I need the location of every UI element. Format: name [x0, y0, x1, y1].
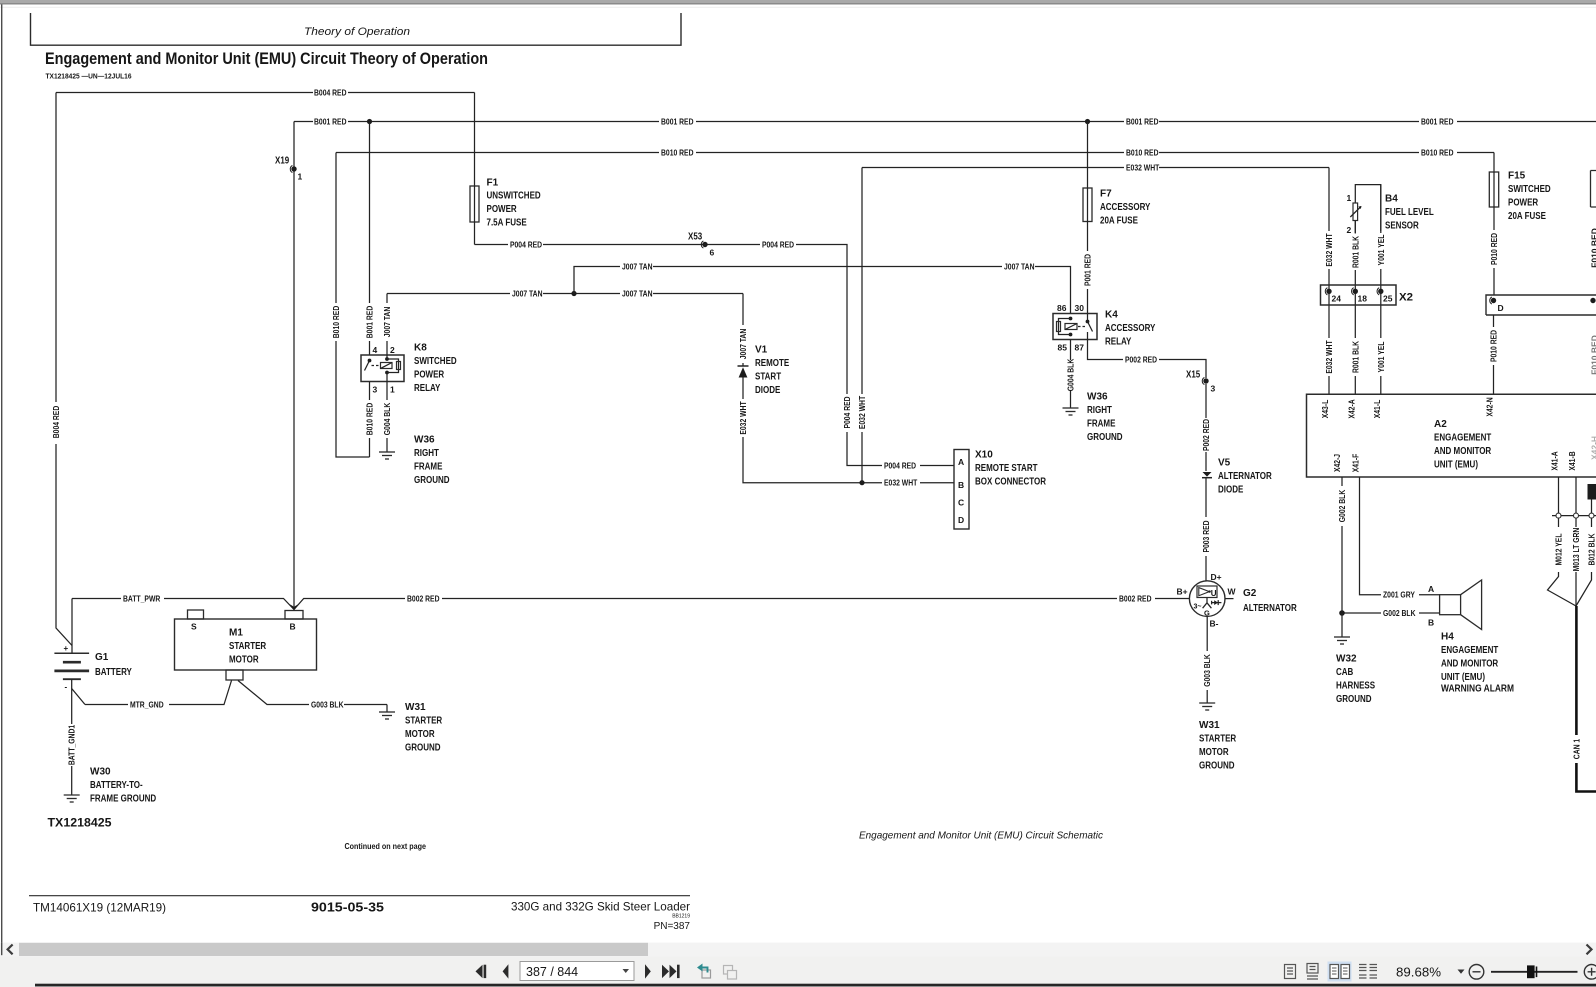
svg-text:UNIT (EMU): UNIT (EMU): [1434, 459, 1478, 470]
svg-text:1: 1: [298, 172, 303, 182]
junction on B001 RED at x369: [367, 119, 372, 124]
B4 pin numbers 1 2: [1347, 193, 1352, 235]
svg-text:25: 25: [1383, 294, 1393, 304]
wire B010 RED vertical drop x336: [331, 153, 370, 458]
svg-text:87: 87: [1075, 343, 1085, 353]
wire E032 WHT horizontal: [862, 162, 1329, 172]
svg-text:M012 YEL: M012 YEL: [1554, 534, 1564, 566]
svg-text:G004 BLK: G004 BLK: [1066, 358, 1076, 391]
EMU A2 box: [1307, 394, 1596, 477]
svg-text:P004 RED: P004 RED: [762, 239, 794, 249]
node X19 vertical wire B001 to starter: [293, 122, 295, 607]
svg-text:A: A: [1428, 584, 1434, 594]
svg-text:DIODE: DIODE: [755, 385, 781, 396]
wire P004 RED from F1 to X53 to drop: [475, 239, 955, 470]
svg-text:BATTERY-TO-: BATTERY-TO-: [90, 780, 143, 791]
svg-text:BOX CONNECTOR: BOX CONNECTOR: [975, 477, 1047, 488]
wire G004 BLK from K4 pin85 to ground: [1066, 340, 1076, 409]
svg-text:RELAY: RELAY: [1105, 337, 1132, 348]
svg-text:RIGHT: RIGHT: [414, 448, 439, 459]
toolbar previous page button: [503, 964, 509, 978]
svg-text:B002 RED: B002 RED: [407, 593, 440, 603]
svg-text:X42-J: X42-J: [1332, 454, 1342, 472]
svg-text:P004 RED: P004 RED: [510, 239, 542, 249]
label W32 CAB HARNESS GROUND: [1336, 654, 1375, 705]
svg-text:W32: W32: [1336, 654, 1357, 665]
svg-text:X53: X53: [688, 232, 703, 243]
svg-text:E032 WHT: E032 WHT: [738, 401, 748, 435]
svg-text:W31: W31: [1199, 720, 1220, 731]
svg-text:ACCESSORY: ACCESSORY: [1105, 323, 1156, 334]
K8 pin numbers 4 2 3 1: [373, 345, 396, 395]
svg-text:3: 3: [373, 385, 378, 395]
svg-text:J007 TAN: J007 TAN: [622, 288, 653, 298]
svg-text:POWER: POWER: [1508, 198, 1539, 209]
svg-text:GROUND: GROUND: [414, 475, 450, 486]
wire M012 YEL from EMU X41-A: [1548, 477, 1577, 606]
ground W31 below alternator: [1199, 703, 1215, 710]
svg-text:GROUND: GROUND: [1336, 694, 1372, 705]
wire P010 RED from D box to EMU X42-N: [1489, 315, 1499, 394]
ground W30 battery to frame: [64, 795, 80, 802]
alternator terminal labels D+ W B+ B-: [1177, 572, 1237, 629]
pdf viewer top edge strip: [0, 0, 1596, 8]
header box Theory of Operation: [31, 13, 682, 45]
wire B004 RED left vertical to battery: [51, 93, 72, 646]
connector X19 pin 1: [275, 156, 303, 182]
svg-text:X42-N: X42-N: [1485, 397, 1495, 416]
svg-text:G003 BLK: G003 BLK: [311, 699, 344, 709]
svg-text:J007 TAN: J007 TAN: [512, 288, 543, 298]
wire B012 BLK from edge box: [1576, 500, 1596, 607]
svg-text:F1: F1: [487, 177, 499, 188]
svg-text:J007 TAN: J007 TAN: [382, 307, 392, 338]
wire G003 BLK alternator B- to ground: [1202, 622, 1212, 703]
relay K8: [361, 355, 404, 382]
wire R001 BLK into X2 pin 18: [1350, 221, 1360, 395]
svg-text:X15: X15: [1186, 370, 1201, 381]
svg-text:J007 TAN: J007 TAN: [738, 329, 748, 360]
svg-text:D: D: [1498, 303, 1504, 313]
wire to W32 ground: [1341, 613, 1343, 637]
svg-text:Theory of Operation: Theory of Operation: [304, 26, 410, 38]
toolbar last page button: [662, 965, 680, 978]
svg-text:WARNING ALARM: WARNING ALARM: [1441, 684, 1514, 695]
svg-text:P002 RED: P002 RED: [1201, 419, 1211, 451]
wire P003 RED from V5 to alternator D+: [1201, 478, 1211, 581]
svg-text:START: START: [755, 372, 781, 383]
svg-text:E032 WHT: E032 WHT: [1126, 162, 1160, 172]
svg-text:H4: H4: [1441, 632, 1454, 643]
battery G1: [54, 644, 89, 705]
svg-text:387 / 844: 387 / 844: [526, 965, 578, 979]
svg-text:4: 4: [373, 345, 378, 355]
svg-text:DIODE: DIODE: [1218, 485, 1244, 496]
svg-text:X41-F: X41-F: [1351, 454, 1361, 473]
svg-text:2: 2: [390, 345, 395, 355]
K4 pin numbers 86 30 85 87: [1057, 303, 1084, 353]
svg-text:E032 WHT: E032 WHT: [857, 395, 867, 429]
connector box with pin D: [1486, 295, 1596, 315]
junction G002 BLK at W32: [1339, 610, 1345, 616]
svg-text:UNIT (EMU): UNIT (EMU): [1441, 672, 1485, 683]
svg-text:Continued on next page: Continued on next page: [345, 841, 427, 851]
svg-text:STARTER: STARTER: [1199, 734, 1237, 745]
svg-text:GROUND: GROUND: [405, 742, 441, 753]
fuse F7 and wire P001 RED: [1083, 122, 1093, 314]
CAN 1 bus thick wire: [1571, 606, 1596, 792]
component box at right edge: [1588, 484, 1596, 500]
svg-text:POWER: POWER: [487, 204, 518, 215]
svg-text:G2: G2: [1243, 588, 1257, 599]
svg-text:P002 RED: P002 RED: [1125, 354, 1157, 364]
junction on B001 RED at x1087: [1085, 119, 1090, 124]
svg-text:86: 86: [1057, 303, 1067, 313]
svg-text:G003 BLK: G003 BLK: [1202, 654, 1212, 687]
toolbar previous view icon: [697, 964, 711, 979]
wire BATT_PWR battery to starter B: [72, 593, 294, 653]
toolbar zoom out button: [1469, 965, 1484, 980]
wire G003 BLK motor to ground: [238, 681, 387, 713]
svg-text:Y001 YEL: Y001 YEL: [1376, 342, 1386, 373]
svg-text:X41-L: X41-L: [1372, 400, 1382, 419]
label F1 UNSWITCHED POWER 7.5A FUSE: [487, 177, 541, 228]
toolbar continuous icon: [1307, 964, 1318, 980]
svg-text:18: 18: [1358, 294, 1368, 304]
wire P002 RED from K4 pin87: [1088, 340, 1212, 472]
svg-text:RIGHT: RIGHT: [1087, 405, 1112, 416]
partial fuse at right page edge: [1591, 171, 1596, 208]
wire B010 RED riser to K8 pin 3: [365, 382, 375, 457]
svg-text:MOTOR: MOTOR: [405, 729, 435, 740]
svg-text:F010 BED: F010 BED: [1590, 335, 1596, 375]
svg-text:X42-H: X42-H: [1590, 436, 1596, 460]
toolbar next view icon disabled: [724, 966, 737, 980]
svg-text:TM14061X19 (12MAR19): TM14061X19 (12MAR19): [33, 901, 166, 915]
svg-text:W31: W31: [405, 702, 426, 713]
fuse F15 and wire P010 RED: [1489, 153, 1499, 296]
X2 pin numbers 24 18 25: [1332, 294, 1393, 304]
junction J007 TAN at x574: [571, 291, 576, 296]
svg-text:24: 24: [1332, 294, 1342, 304]
svg-text:B010 RED: B010 RED: [331, 306, 341, 339]
svg-text:9015-05-35: 9015-05-35: [311, 900, 384, 915]
label G1 BATTERY: [95, 652, 132, 678]
svg-text:REMOTE: REMOTE: [755, 358, 789, 369]
svg-text:B4: B4: [1385, 194, 1398, 205]
svg-text:B001 RED: B001 RED: [1421, 116, 1454, 126]
toolbar page number box 387 / 844: [520, 962, 634, 981]
wire J007 TAN drop to K8 pin 2: [382, 294, 392, 356]
svg-text:W30: W30: [90, 767, 111, 778]
svg-text:85: 85: [1058, 343, 1068, 353]
svg-text:G004 BLK: G004 BLK: [382, 402, 392, 435]
alternator G2: [1189, 581, 1233, 622]
svg-text:P001 RED: P001 RED: [1083, 254, 1093, 286]
diode V5 alternator diode: [1202, 472, 1212, 478]
svg-text:B004 RED: B004 RED: [51, 406, 61, 439]
svg-text:G002 BLK: G002 BLK: [1383, 608, 1416, 618]
svg-text:V5: V5: [1218, 458, 1231, 469]
H4 terminal labels A B: [1428, 584, 1434, 628]
wire M013 LT GRN from EMU X41-B: [1571, 477, 1581, 606]
svg-text:RELAY: RELAY: [414, 383, 441, 394]
svg-text:FRAME GROUND: FRAME GROUND: [90, 794, 156, 805]
svg-text:A: A: [958, 457, 964, 467]
alarm H4 speaker: [1440, 580, 1482, 630]
svg-text:CAB: CAB: [1336, 667, 1353, 678]
svg-text:ENGAGEMENT: ENGAGEMENT: [1434, 433, 1491, 444]
ground W36 below K8: [379, 452, 395, 459]
svg-text:3~: 3~: [1194, 604, 1202, 611]
svg-text:B010 RED: B010 RED: [661, 147, 694, 157]
svg-text:ACCESSORY: ACCESSORY: [1100, 202, 1151, 213]
wire B002 RED starter B to alternator B+: [294, 593, 1189, 609]
svg-text:X10: X10: [975, 450, 993, 461]
label M1 STARTER MOTOR: [229, 628, 267, 666]
svg-text:7.5A FUSE: 7.5A FUSE: [487, 218, 527, 229]
toolbar zoom dropdown caret: [1458, 970, 1465, 974]
svg-text:G002 BLK: G002 BLK: [1337, 489, 1347, 522]
sensor B4 fuel level: [1350, 185, 1381, 233]
label W36 RIGHT FRAME GROUND: [1087, 392, 1123, 443]
svg-text:MOTOR: MOTOR: [1199, 747, 1229, 758]
svg-text:B-: B-: [1210, 619, 1219, 629]
svg-text:J007 TAN: J007 TAN: [622, 261, 653, 271]
svg-text:STARTER: STARTER: [405, 716, 443, 727]
svg-text:GROUND: GROUND: [1199, 760, 1235, 771]
label F15 SWITCHED POWER 20A FUSE: [1508, 171, 1551, 222]
svg-text:3: 3: [1211, 384, 1216, 394]
svg-text:ALTERNATOR: ALTERNATOR: [1218, 471, 1272, 482]
label X10 REMOTE START BOX CONNECTOR: [975, 450, 1047, 488]
svg-text:P003 RED: P003 RED: [1201, 520, 1211, 552]
svg-text:BB1219: BB1219: [672, 914, 690, 920]
svg-text:A2: A2: [1434, 419, 1447, 430]
svg-text:P004 RED: P004 RED: [842, 396, 852, 428]
svg-text:6: 6: [710, 248, 715, 258]
svg-text:Y001 YEL: Y001 YEL: [1376, 235, 1386, 266]
svg-text:SWITCHED: SWITCHED: [1508, 184, 1551, 195]
svg-text:V1: V1: [755, 345, 768, 356]
label W36 RIGHT FRAME GROUND: [414, 435, 450, 486]
svg-text:HARNESS: HARNESS: [1336, 681, 1375, 692]
svg-text:D+: D+: [1211, 572, 1222, 582]
svg-text:FRAME: FRAME: [1087, 419, 1116, 430]
svg-text:AND MONITOR: AND MONITOR: [1434, 446, 1492, 457]
wire J007 TAN drop to V1: [738, 294, 748, 367]
M1 terminal labels S B: [191, 622, 296, 632]
svg-text:ENGAGEMENT: ENGAGEMENT: [1441, 645, 1498, 656]
svg-text:E032 WHT: E032 WHT: [1324, 340, 1334, 374]
wire B010 RED top bus: [336, 147, 1494, 157]
pdf viewer left window edge: [1, 4, 2, 955]
svg-text:330G and 332G Skid Steer Loade: 330G and 332G Skid Steer Loader: [511, 900, 690, 914]
connector X2 box: [1321, 285, 1397, 305]
svg-text:B: B: [1428, 618, 1434, 628]
svg-text:X42-A: X42-A: [1346, 399, 1356, 418]
label W31 STARTER MOTOR GROUND: [1199, 720, 1237, 771]
inline connector row on right wires: [1552, 513, 1596, 518]
svg-text:Engagement and Monitor Unit (E: Engagement and Monitor Unit (EMU) Circui…: [45, 49, 488, 68]
svg-text:-: -: [65, 683, 68, 692]
wire G004 BLK from K8 pin1 to ground: [382, 382, 392, 453]
toolbar two page continuous icon: [1359, 965, 1377, 979]
label W30 BATTERY-TO- FRAME GROUND: [90, 767, 156, 805]
svg-text:SENSOR: SENSOR: [1385, 221, 1419, 232]
svg-text:G1: G1: [95, 652, 109, 663]
svg-text:SWITCHED: SWITCHED: [414, 356, 457, 367]
toolbar first page button: [476, 965, 487, 978]
svg-text:W36: W36: [1087, 392, 1108, 403]
label A2 ENGAGEMENT AND MONITOR UNIT EMU: [1434, 419, 1492, 470]
svg-text:E032 WHT: E032 WHT: [884, 478, 918, 488]
pdf viewer bottom toolbar: [0, 956, 1596, 987]
label V5 ALTERNATOR DIODE: [1218, 458, 1272, 496]
label B4 FUEL LEVEL SENSOR: [1385, 194, 1434, 232]
svg-text:X41-B: X41-B: [1567, 451, 1577, 470]
toolbar zoom slider: [1491, 965, 1578, 978]
connector X53 pin 6: [688, 232, 715, 258]
wire BATT_GND1 battery to frame ground: [67, 689, 77, 796]
svg-text:Engagement and Monitor Unit: Engagement and Monitor Unit (EMU) Circui…: [859, 830, 1104, 842]
wire Y001 YEL into X2 pin 25: [1376, 185, 1386, 395]
wire E032 WHT vertical x862: [857, 168, 867, 483]
svg-text:89.68%: 89.68%: [1396, 965, 1441, 980]
junction E032 WHT at X10 branch: [859, 480, 864, 485]
svg-text:Z001 GRY: Z001 GRY: [1383, 590, 1415, 600]
svg-text:POWER: POWER: [414, 370, 445, 381]
svg-text:B+: B+: [1177, 587, 1188, 597]
svg-text:F010 BED: F010 BED: [1590, 228, 1596, 268]
svg-text:MOTOR: MOTOR: [229, 655, 259, 666]
svg-text:MTR_GND: MTR_GND: [130, 699, 164, 709]
svg-text:P010 RED: P010 RED: [1489, 233, 1499, 265]
svg-text:X41-A: X41-A: [1550, 451, 1560, 470]
svg-text:P010 RED: P010 RED: [1489, 330, 1499, 362]
svg-text:R001 BLK: R001 BLK: [1350, 235, 1360, 268]
svg-text:B001 RED: B001 RED: [661, 116, 694, 126]
footer rule: [29, 895, 690, 897]
svg-text:REMOTE START: REMOTE START: [975, 463, 1038, 474]
svg-text:B001 RED: B001 RED: [365, 306, 375, 339]
svg-text:J007 TAN: J007 TAN: [1004, 261, 1035, 271]
wire G002 BLK from EMU X42-J: [1337, 477, 1440, 618]
wire B001 RED top bus: [294, 116, 1596, 126]
svg-text:30: 30: [1075, 303, 1085, 313]
svg-text:W36: W36: [414, 435, 435, 446]
svg-text:M013 LT GRN: M013 LT GRN: [1571, 528, 1581, 572]
svg-text:TX1218425: TX1218425: [48, 818, 113, 830]
label F7 ACCESSORY 20A FUSE: [1100, 189, 1151, 227]
label V1 REMOTE START DIODE: [755, 345, 789, 396]
svg-text:BATT_GND1: BATT_GND1: [67, 725, 77, 766]
svg-text:GROUND: GROUND: [1087, 432, 1123, 443]
svg-text:K8: K8: [414, 343, 427, 354]
svg-text:FRAME: FRAME: [414, 462, 443, 473]
svg-text:FUEL LEVEL: FUEL LEVEL: [1385, 207, 1434, 218]
svg-text:ALTERNATOR: ALTERNATOR: [1243, 603, 1297, 614]
wire E032 WHT from V1 to X10 B: [738, 378, 954, 488]
pdf viewer horizontal scrollbar: [0, 943, 1596, 957]
toolbar zoom in button: [1584, 965, 1596, 980]
svg-text:P004 RED: P004 RED: [884, 460, 916, 470]
svg-text:B010 RED: B010 RED: [1126, 147, 1159, 157]
wire Z001 GRY from EMU X41-F to H4 A: [1360, 477, 1440, 600]
svg-text:20A FUSE: 20A FUSE: [1100, 216, 1138, 227]
toolbar next page button: [645, 964, 651, 978]
faint clipped wire label right edge: [1590, 228, 1596, 460]
svg-text:B001 RED: B001 RED: [1126, 116, 1159, 126]
svg-text:STARTER: STARTER: [229, 641, 267, 652]
svg-text:2: 2: [1347, 225, 1352, 235]
toolbar two page icon selected: [1328, 962, 1352, 982]
svg-text:B: B: [958, 480, 964, 490]
svg-text:1: 1: [1347, 193, 1352, 203]
svg-text:U: U: [1211, 589, 1217, 598]
label W31 STARTER MOTOR GROUND: [405, 702, 443, 753]
label K8 SWITCHED POWER RELAY: [414, 343, 457, 394]
arrow into starter terminal B: [290, 604, 298, 610]
svg-text:+: +: [64, 644, 69, 653]
svg-text:UNSWITCHED: UNSWITCHED: [487, 191, 541, 202]
wire B004 RED top bus: [56, 87, 475, 97]
svg-text:B004 RED: B004 RED: [314, 87, 347, 97]
ground W32 cab harness: [1334, 637, 1350, 644]
connector X10 box: [954, 450, 969, 530]
svg-text:D: D: [958, 515, 964, 525]
wire J007 TAN upper branch y266 to K4: [574, 261, 1071, 313]
svg-text:BATTERY: BATTERY: [95, 667, 132, 678]
svg-text:PN=387: PN=387: [654, 921, 691, 932]
label H4 ENGAGEMENT AND MONITOR UNIT EMU WARNING ALARM: [1441, 632, 1514, 695]
svg-text:F7: F7: [1100, 189, 1112, 200]
svg-text:B: B: [290, 622, 296, 632]
svg-text:C: C: [958, 498, 964, 508]
svg-text:E032 WHT: E032 WHT: [1324, 233, 1334, 267]
svg-text:B010 RED: B010 RED: [365, 403, 375, 436]
fuse F1: [470, 93, 479, 245]
svg-text:F15: F15: [1508, 171, 1526, 182]
svg-text:X2: X2: [1399, 292, 1413, 304]
svg-text:M1: M1: [229, 628, 243, 639]
wire B001 RED drop to K8 pin 4: [365, 122, 375, 356]
svg-text:B010 RED: B010 RED: [1421, 147, 1454, 157]
svg-text:K4: K4: [1105, 310, 1118, 321]
motor M1 starter: [175, 610, 317, 680]
svg-text:BATT_PWR: BATT_PWR: [123, 593, 160, 603]
svg-text:B012 BLK: B012 BLK: [1587, 533, 1596, 566]
ground W36 below K4: [1063, 408, 1079, 415]
svg-text:B002 RED: B002 RED: [1119, 593, 1152, 603]
label G2 ALTERNATOR: [1243, 588, 1297, 614]
wire J007 TAN lower branch y293: [387, 288, 743, 298]
ground W31 starter motor: [379, 712, 395, 719]
diode V1 remote start: [738, 366, 749, 378]
wire MTR_GND battery minus to motor: [85, 681, 232, 710]
svg-text:1: 1: [390, 385, 395, 395]
svg-text:AND MONITOR: AND MONITOR: [1441, 659, 1499, 670]
svg-text:W: W: [1228, 587, 1237, 597]
svg-text:CAN 1: CAN 1: [1571, 739, 1581, 760]
wire E032 WHT into X2 pin 24: [1324, 168, 1334, 395]
toolbar single page icon: [1285, 965, 1296, 979]
svg-text:G: G: [1204, 609, 1210, 618]
svg-text:S: S: [191, 622, 197, 632]
svg-text:20A FUSE: 20A FUSE: [1508, 211, 1546, 222]
svg-text:R001 BLK: R001 BLK: [1350, 340, 1360, 373]
svg-text:X43-L: X43-L: [1320, 400, 1330, 419]
